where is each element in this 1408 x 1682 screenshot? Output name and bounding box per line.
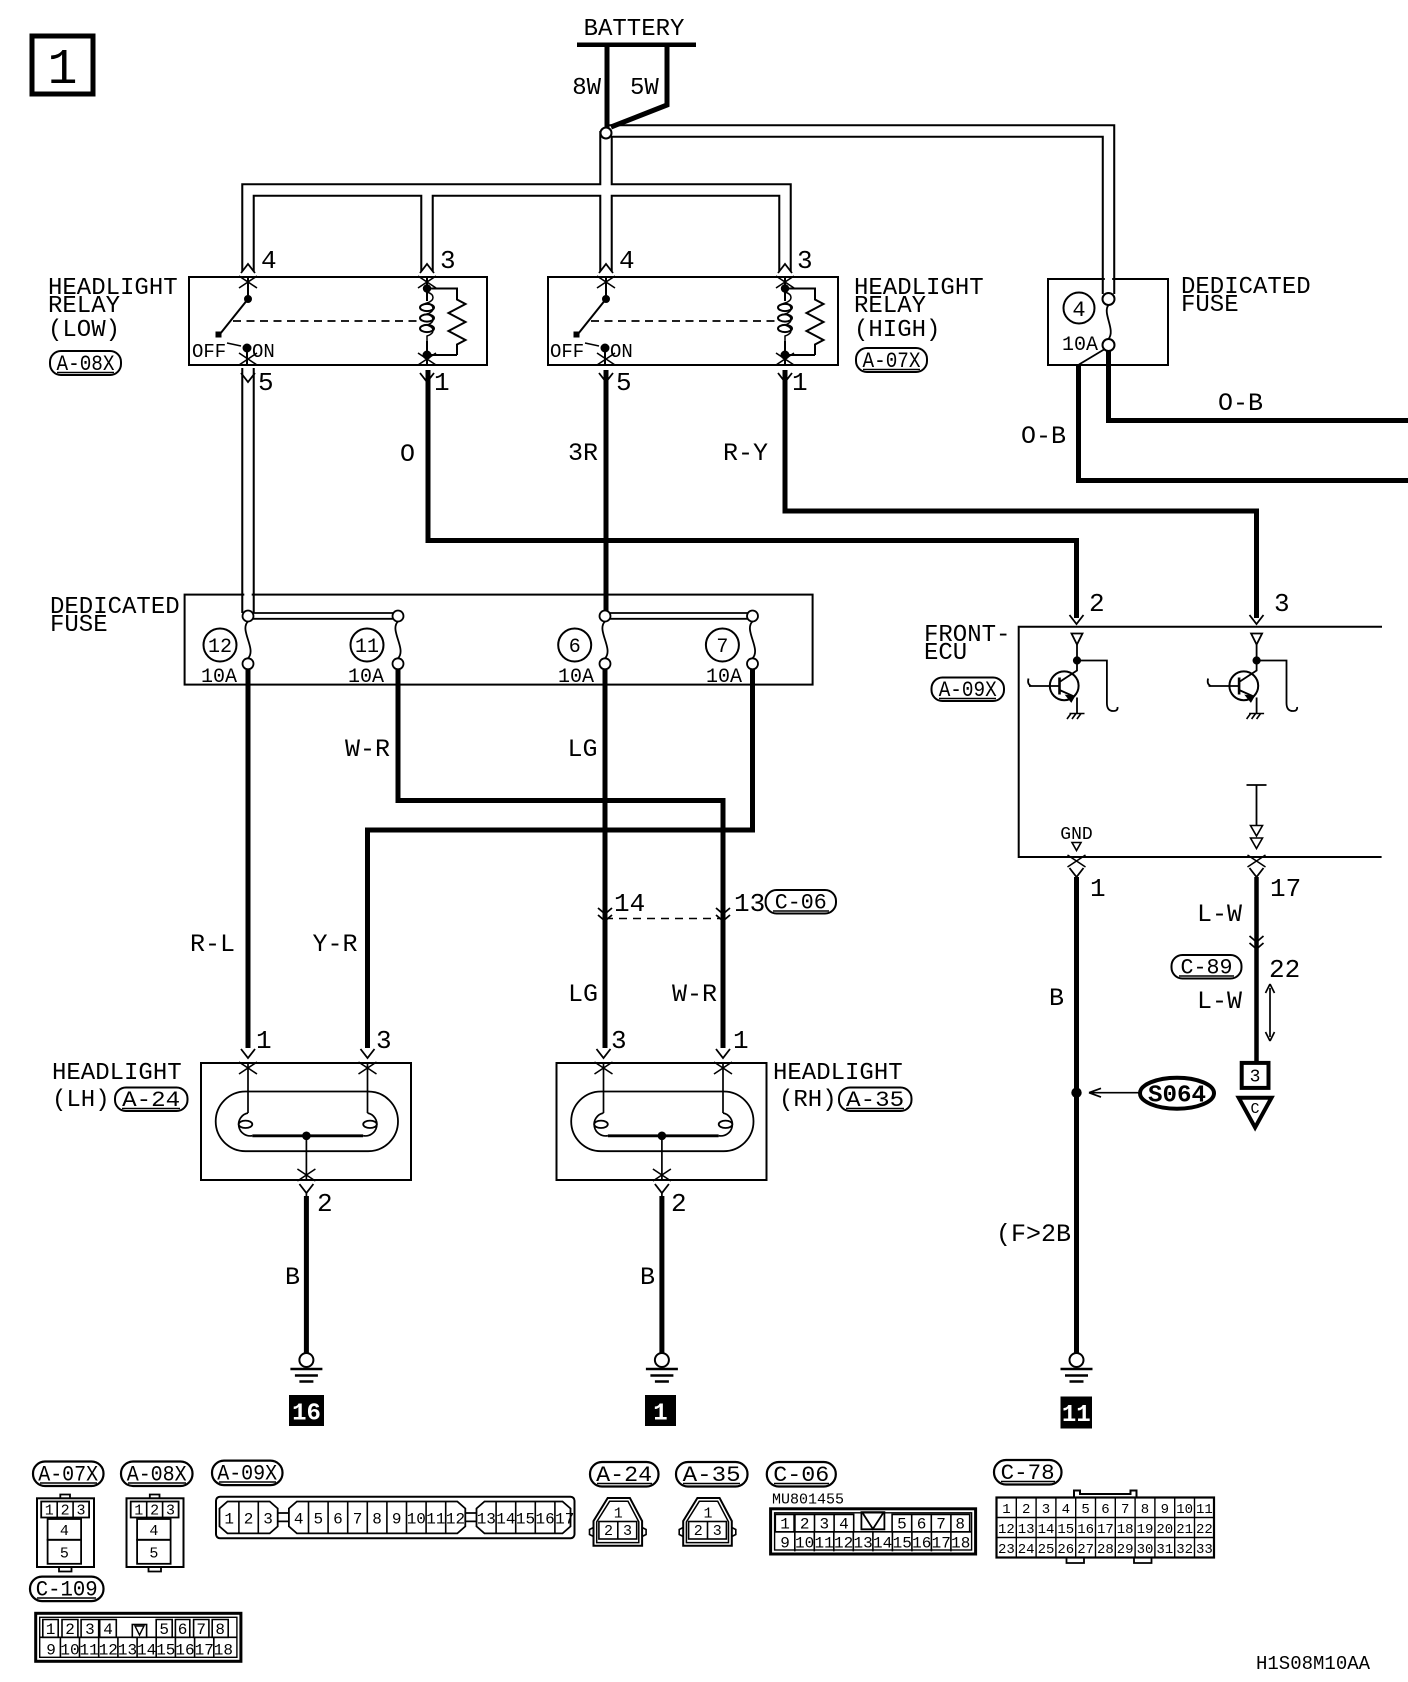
wire 3R : high relay pin5 to fuse 6 (604, 370, 609, 612)
svg-text:3: 3 (713, 1523, 722, 1540)
svg-text:H1S08M10AA: H1S08M10AA (1256, 1653, 1371, 1675)
svg-text:3: 3 (85, 1621, 95, 1639)
fuse 7 (706, 629, 739, 662)
svg-text:12: 12 (99, 1642, 118, 1660)
svg-text:2: 2 (65, 1621, 75, 1639)
svg-text:9: 9 (392, 1511, 402, 1529)
svg-text:2: 2 (1089, 589, 1105, 619)
svg-text:3: 3 (76, 1503, 85, 1520)
transistor Q2 (1208, 634, 1297, 720)
relay box A-07X (548, 277, 838, 365)
svg-text:15: 15 (156, 1642, 175, 1660)
svg-text:17: 17 (195, 1642, 214, 1660)
svg-text:4: 4 (103, 1621, 113, 1639)
svg-text:12: 12 (834, 1535, 853, 1553)
svg-text:2: 2 (1022, 1502, 1030, 1518)
svg-text:(LH): (LH) (52, 1087, 110, 1114)
fusible link 5W (611, 45, 667, 127)
svg-text:10A: 10A (558, 666, 594, 689)
svg-text:(HIGH): (HIGH) (854, 317, 940, 344)
ground ecu (1061, 1353, 1093, 1382)
svg-text:FUSE: FUSE (50, 612, 108, 639)
svg-text:1: 1 (733, 1026, 749, 1056)
svg-text:10: 10 (795, 1535, 814, 1553)
svg-text:10A: 10A (706, 666, 742, 689)
svg-text:17: 17 (932, 1535, 951, 1553)
svg-text:(LOW): (LOW) (48, 317, 120, 344)
svg-text:12: 12 (446, 1511, 465, 1529)
svg-text:L-W: L-W (1197, 900, 1242, 929)
svg-text:21: 21 (1176, 1522, 1193, 1538)
svg-text:ON: ON (252, 341, 275, 363)
connector label C-109 (30, 1577, 104, 1603)
svg-text:29: 29 (1117, 1542, 1134, 1558)
battery bus bar (577, 42, 696, 47)
svg-text:19: 19 (1137, 1522, 1154, 1538)
node battery junction (601, 128, 612, 139)
svg-text:4: 4 (619, 246, 635, 276)
connector label A-07X (33, 1462, 104, 1488)
svg-text:5: 5 (897, 1516, 907, 1534)
svg-text:16: 16 (912, 1535, 931, 1553)
svg-text:3: 3 (1042, 1502, 1050, 1518)
connector C-06 pinout (771, 1509, 976, 1554)
svg-text:3: 3 (263, 1511, 273, 1529)
wire battery feed down to high relay pin4 (599, 131, 613, 271)
svg-text:HEADLIGHT: HEADLIGHT (773, 1060, 903, 1087)
transistor Q1 (1028, 634, 1117, 720)
svg-text:6: 6 (178, 1621, 188, 1639)
svg-text:3: 3 (1274, 589, 1290, 619)
connector label A-09X (212, 1461, 283, 1487)
svg-text:2: 2 (244, 1511, 254, 1529)
svg-text:4: 4 (261, 246, 277, 276)
svg-text:31: 31 (1156, 1542, 1173, 1558)
ecu box A-09X (open right side) (1019, 627, 1382, 857)
svg-text:13: 13 (1018, 1522, 1035, 1538)
svg-text:17: 17 (1097, 1522, 1114, 1538)
wire O : low relay pin1 to front-ecu pin2 (428, 370, 1077, 618)
connector label A-07X (856, 348, 927, 374)
svg-text:MU801455: MU801455 (772, 1492, 844, 1509)
fuse 12 (204, 629, 237, 662)
svg-text:13: 13 (118, 1642, 137, 1660)
connector A-07X pinout (37, 1495, 94, 1572)
double arrow (1266, 984, 1275, 1041)
svg-text:32: 32 (1176, 1542, 1193, 1558)
svg-text:C: C (1250, 1101, 1259, 1118)
svg-text:1: 1 (703, 1506, 712, 1523)
svg-text:8: 8 (1141, 1502, 1149, 1518)
svg-text:13: 13 (734, 889, 765, 919)
svg-text:1: 1 (45, 1503, 54, 1520)
svg-text:25: 25 (1038, 1542, 1055, 1558)
svg-text:6: 6 (569, 636, 581, 659)
fusible link 8W (605, 45, 610, 131)
svg-text:15: 15 (893, 1535, 912, 1553)
svg-text:ECU: ECU (924, 640, 967, 667)
connector label A-09X (932, 678, 1005, 704)
svg-text:1: 1 (224, 1511, 234, 1529)
svg-text:18: 18 (951, 1535, 970, 1553)
connector label A-08X (50, 351, 121, 377)
fuse box (185, 595, 813, 685)
wire LG (603, 669, 608, 1048)
svg-text:2: 2 (694, 1523, 703, 1540)
svg-text:O: O (400, 440, 415, 469)
wire B (1074, 877, 1079, 1353)
svg-text:16: 16 (535, 1511, 554, 1529)
svg-text:2: 2 (317, 1189, 333, 1219)
svg-text:B: B (640, 1263, 655, 1292)
svg-text:4: 4 (294, 1511, 304, 1529)
svg-text:13: 13 (477, 1511, 496, 1529)
svg-text:14: 14 (873, 1535, 892, 1553)
svg-text:11: 11 (355, 636, 379, 659)
svg-text:5: 5 (313, 1511, 323, 1529)
svg-text:B: B (285, 1263, 300, 1292)
svg-text:O-B: O-B (1021, 422, 1066, 451)
connector label C-78 (994, 1460, 1062, 1486)
svg-text:28: 28 (1097, 1542, 1114, 1558)
svg-text:10A: 10A (201, 666, 237, 689)
svg-text:3: 3 (611, 1026, 627, 1056)
ecu pin17 internal symbol (1247, 785, 1267, 825)
fuse bus right (610, 613, 748, 619)
svg-text:1: 1 (1090, 874, 1106, 904)
svg-text:17: 17 (1270, 874, 1301, 904)
svg-text:4: 4 (149, 1523, 158, 1540)
connector label A-24 (115, 1088, 188, 1114)
svg-text:(F>2B: (F>2B (996, 1220, 1071, 1249)
connector A-35 pinout (679, 1498, 736, 1546)
svg-text:LG: LG (568, 980, 598, 1009)
wire R-L (246, 669, 251, 1048)
svg-text:5: 5 (159, 1621, 169, 1639)
svg-text:W-R: W-R (672, 980, 717, 1009)
svg-text:10: 10 (407, 1511, 426, 1529)
svg-text:4: 4 (839, 1516, 849, 1534)
svg-text:11: 11 (1062, 1402, 1091, 1429)
svg-text:26: 26 (1057, 1542, 1074, 1558)
relay box A-08X (189, 277, 487, 365)
svg-text:7: 7 (716, 636, 728, 659)
svg-text:OFF: OFF (550, 341, 584, 363)
ground ref 16 (289, 1395, 324, 1426)
wire R-Y : high relay pin1 to front-ecu pin3 (785, 370, 1257, 618)
terminal 3 box (1242, 1063, 1269, 1088)
svg-text:(RH): (RH) (779, 1087, 837, 1114)
fuse element (1103, 293, 1115, 305)
svg-text:7: 7 (196, 1621, 206, 1639)
svg-text:RELAY: RELAY (854, 293, 926, 320)
ground ref 1 (645, 1395, 676, 1426)
pin entry marks relays (241, 264, 255, 273)
connector label C-89 (1172, 955, 1242, 981)
wire B LH (304, 1196, 309, 1353)
svg-text:16: 16 (292, 1401, 321, 1428)
svg-text:22: 22 (1196, 1522, 1213, 1538)
svg-text:2: 2 (604, 1523, 613, 1540)
svg-text:1: 1 (46, 1621, 56, 1639)
ground RH (646, 1353, 678, 1382)
svg-text:LG: LG (567, 735, 597, 764)
svg-text:ON: ON (610, 341, 633, 363)
ground LH (290, 1353, 322, 1382)
svg-text:1: 1 (653, 1401, 667, 1428)
svg-text:14: 14 (496, 1511, 515, 1529)
svg-text:11: 11 (814, 1535, 833, 1553)
svg-text:R-Y: R-Y (723, 439, 768, 468)
svg-text:17: 17 (555, 1511, 574, 1529)
headlight bulb LH (201, 1049, 411, 1196)
svg-text:9: 9 (1161, 1502, 1169, 1518)
svg-text:15: 15 (516, 1511, 535, 1529)
svg-text:1: 1 (780, 1516, 790, 1534)
node S064 (1071, 1088, 1081, 1098)
svg-text:6: 6 (917, 1516, 927, 1534)
svg-text:1: 1 (792, 368, 808, 398)
svg-text:11: 11 (79, 1642, 98, 1660)
svg-text:FUSE: FUSE (1181, 292, 1239, 319)
svg-text:3: 3 (166, 1503, 175, 1520)
svg-text:1: 1 (434, 368, 450, 398)
svg-text:11: 11 (1196, 1502, 1213, 1518)
svg-text:4: 4 (1072, 298, 1085, 323)
connector A-09X pinout (216, 1497, 575, 1539)
connector A-24 pinout (590, 1498, 647, 1546)
svg-text:3: 3 (797, 246, 813, 276)
ecu bottom pin marks (1068, 855, 1086, 867)
relay internals low (216, 277, 466, 365)
svg-text:1: 1 (47, 42, 77, 99)
connector label A-35 (839, 1088, 912, 1114)
svg-text:2: 2 (800, 1516, 810, 1534)
svg-text:L-W: L-W (1197, 987, 1242, 1016)
svg-text:6: 6 (1101, 1502, 1109, 1518)
wire O-B upper (1109, 351, 1408, 421)
wire bus to relay pins 4/3 (248, 190, 785, 271)
svg-text:9: 9 (780, 1535, 790, 1553)
svg-text:5: 5 (258, 368, 274, 398)
svg-text:15: 15 (1057, 1522, 1074, 1538)
wire O-B lower (1079, 365, 1408, 481)
svg-text:1: 1 (614, 1506, 623, 1523)
svg-text:23: 23 (998, 1542, 1015, 1558)
connector C-78 pinout (997, 1491, 1215, 1564)
triangle C (1239, 1098, 1272, 1128)
svg-text:7: 7 (353, 1511, 363, 1529)
svg-text:8W: 8W (572, 75, 601, 102)
svg-text:3: 3 (376, 1026, 392, 1056)
svg-text:16: 16 (1077, 1522, 1094, 1538)
svg-text:8: 8 (955, 1516, 965, 1534)
svg-text:16: 16 (175, 1642, 194, 1660)
svg-text:3: 3 (1250, 1068, 1261, 1088)
svg-text:27: 27 (1077, 1542, 1094, 1558)
connector label A-08X (121, 1462, 193, 1488)
svg-text:RELAY: RELAY (48, 293, 120, 320)
svg-text:3: 3 (819, 1516, 829, 1534)
svg-text:2: 2 (671, 1189, 687, 1219)
svg-text:14: 14 (137, 1642, 156, 1660)
svg-text:S064: S064 (1148, 1083, 1206, 1110)
wire bus drop to low relay pin3 (420, 190, 434, 271)
svg-text:2: 2 (150, 1503, 159, 1520)
svg-text:O-B: O-B (1218, 389, 1263, 418)
svg-text:7: 7 (936, 1516, 946, 1534)
svg-text:10: 10 (60, 1642, 79, 1660)
svg-text:14: 14 (614, 889, 645, 919)
svg-text:10A: 10A (348, 666, 384, 689)
connector label A-35 (676, 1462, 748, 1488)
svg-text:R-L: R-L (190, 930, 235, 959)
svg-text:13: 13 (853, 1535, 872, 1553)
ground ref 11 (1061, 1397, 1093, 1429)
svg-text:Y-R: Y-R (312, 930, 357, 959)
wire L-W (1254, 877, 1259, 1062)
svg-text:3: 3 (440, 246, 456, 276)
svg-text:12: 12 (208, 636, 232, 659)
wire B RH (659, 1196, 664, 1353)
svg-text:11: 11 (426, 1511, 445, 1529)
svg-text:3R: 3R (568, 439, 598, 468)
svg-text:12: 12 (998, 1522, 1015, 1538)
fuse 4 circled number (1064, 293, 1095, 324)
wire Y-R (368, 669, 753, 1048)
svg-text:1: 1 (1002, 1502, 1010, 1518)
svg-text:5: 5 (149, 1546, 158, 1563)
svg-text:14: 14 (1038, 1522, 1055, 1538)
svg-text:24: 24 (1018, 1542, 1035, 1558)
wire battery feed to dedicated fuse (606, 131, 1109, 294)
connector C-109 pinout (36, 1613, 241, 1661)
svg-text:7: 7 (1121, 1502, 1129, 1518)
fuse box (1048, 279, 1168, 365)
fuse 11 (351, 629, 384, 662)
svg-text:5: 5 (1081, 1502, 1089, 1518)
fuse 6 (558, 629, 591, 662)
connector A-08X pinout (127, 1495, 184, 1572)
svg-text:1: 1 (256, 1026, 272, 1056)
fuse bus left (253, 613, 393, 619)
svg-text:10A: 10A (1062, 334, 1098, 357)
svg-text:9: 9 (46, 1642, 56, 1660)
svg-text:2: 2 (61, 1503, 70, 1520)
connector label A-24 (590, 1462, 659, 1488)
svg-text:3: 3 (623, 1523, 632, 1540)
svg-text:20: 20 (1156, 1522, 1173, 1538)
svg-text:18: 18 (1117, 1522, 1134, 1538)
wire W-R (398, 669, 723, 1048)
svg-text:22: 22 (1269, 955, 1300, 985)
svg-text:B: B (1049, 984, 1064, 1013)
headlight bulb RH (557, 1049, 767, 1196)
svg-text:30: 30 (1137, 1542, 1154, 1558)
svg-text:18: 18 (214, 1642, 233, 1660)
relay internals high (574, 277, 824, 365)
svg-text:1: 1 (134, 1503, 143, 1520)
wire low relay pin5 to fuse 12 (241, 368, 255, 613)
svg-text:8: 8 (372, 1511, 382, 1529)
svg-text:W-R: W-R (345, 735, 390, 764)
svg-text:33: 33 (1196, 1542, 1213, 1558)
svg-text:4: 4 (60, 1523, 69, 1540)
svg-text:5W: 5W (630, 75, 659, 102)
svg-text:5: 5 (616, 368, 632, 398)
svg-text:6: 6 (333, 1511, 343, 1529)
svg-text:5: 5 (60, 1546, 69, 1563)
svg-text:10: 10 (1176, 1502, 1193, 1518)
connector label C-06 (767, 1462, 836, 1488)
connector C-06 pass-through (605, 918, 723, 920)
svg-text:4: 4 (1062, 1502, 1070, 1518)
svg-text:HEADLIGHT: HEADLIGHT (52, 1060, 182, 1087)
svg-text:8: 8 (215, 1621, 225, 1639)
svg-text:BATTERY: BATTERY (584, 16, 685, 43)
svg-text:OFF: OFF (192, 341, 226, 363)
